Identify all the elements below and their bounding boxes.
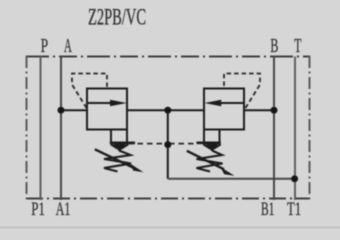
wire A-junction to relief valve RV1 inlet (61, 109, 87, 111)
RV2 flow arrow (points left) (221, 102, 244, 104)
RV2 spring seat stub (203, 130, 205, 143)
RV1 spring (104, 151, 131, 172)
wire P-P1 line (40, 57, 42, 201)
relief valve RV1 body (left square) (87, 89, 127, 130)
RV1 pilot line (dashed) from inlet to top of square (72, 74, 107, 109)
junction node tank return / T line (291, 175, 298, 182)
wire T-T1 line (294, 57, 296, 201)
RV2 adjustment arrow (187, 151, 224, 170)
RV1 spring seat stub (110, 130, 112, 143)
svg-text:P1: P1 (31, 199, 45, 220)
wire tank return to T1 (168, 178, 295, 180)
wire B-B1 line (273, 57, 275, 201)
wire RV2 inlet to B-junction (244, 109, 274, 111)
RV2 pilot line (dashed) from inlet to top of square (224, 74, 260, 109)
RV1 flow arrow (points right) (87, 102, 113, 104)
svg-text:A1: A1 (56, 199, 71, 220)
RV1 adjustment arrow (95, 149, 133, 167)
svg-text:P: P (41, 36, 49, 57)
svg-text:B: B (270, 36, 278, 57)
RV2 seat wedge (206, 144, 219, 151)
spring chamber drain (dashed) RV2 side (169, 143, 197, 145)
RV1 seat wedge (113, 144, 126, 151)
RV2 spring (197, 151, 223, 172)
valve body boundary right (309, 56, 311, 199)
junction node on A line (58, 107, 65, 114)
valve body boundary (dash-dot frame) top (26, 56, 310, 58)
svg-text:T1: T1 (287, 199, 301, 220)
scan shadow at bottom edge (0, 226, 340, 229)
svg-text:B1: B1 (261, 199, 274, 220)
spring chamber drain (dashed) RV1 side (128, 143, 166, 145)
svg-text:Z2PB/VC: Z2PB/VC (88, 5, 146, 30)
svg-text:A: A (64, 36, 72, 57)
wire A-A1 line (60, 57, 62, 201)
wire RV1 outlet to RV2 outlet (center segment) (127, 109, 204, 111)
svg-text:T: T (294, 36, 301, 57)
junction node on B line (271, 107, 278, 114)
wire center vertical (relief outlet to tank) (167, 110, 169, 179)
valve body boundary left (26, 56, 28, 199)
relief valve RV2 body (right square) (204, 89, 244, 130)
junction node main line / center vertical (164, 107, 171, 114)
junction node drain / center vertical (164, 141, 171, 148)
valve body boundary bottom (26, 198, 310, 200)
